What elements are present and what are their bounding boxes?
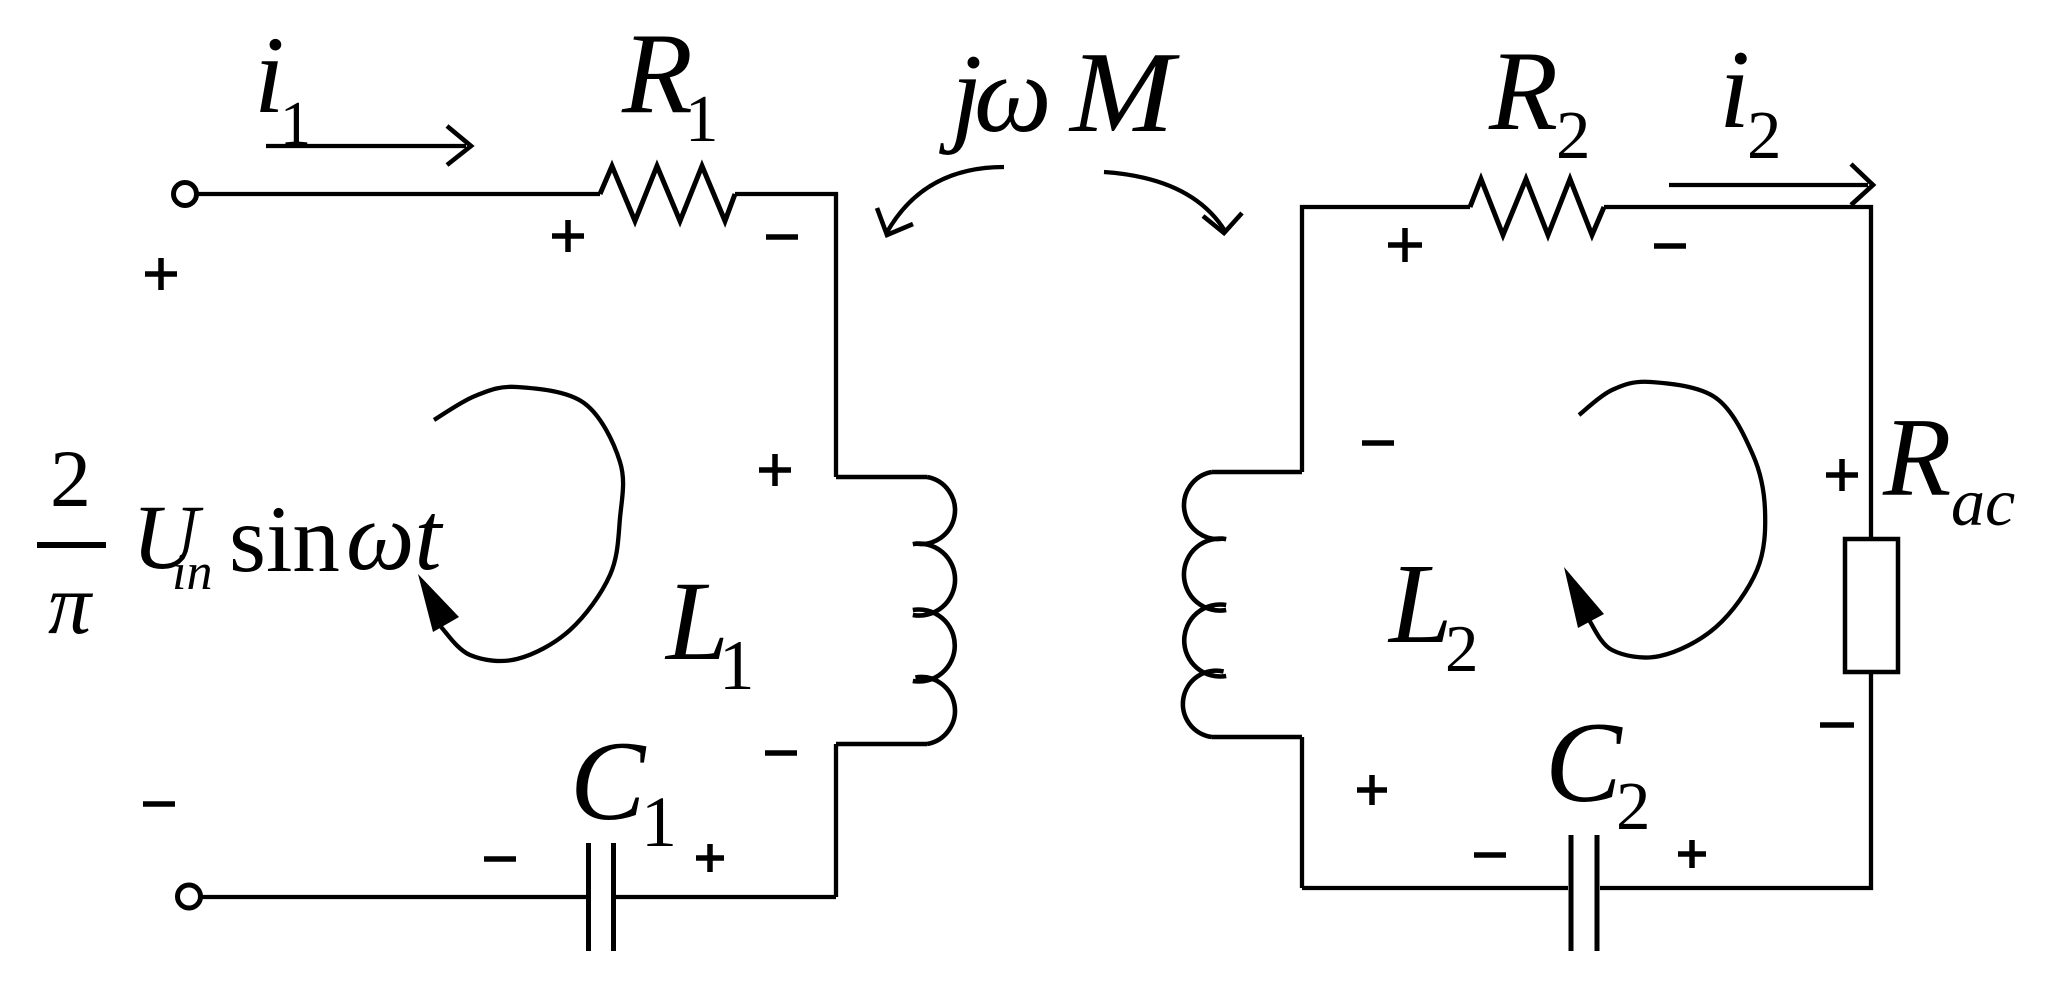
svg-text:ωt: ωt bbox=[346, 483, 443, 590]
svg-text:sin: sin bbox=[229, 486, 340, 592]
polarity - (Rac bottom) bbox=[1820, 722, 1854, 728]
capacitor C1 bbox=[589, 843, 614, 951]
label R1 bbox=[621, 10, 719, 156]
current arrow i1 bbox=[266, 126, 471, 165]
coupling arrow left bbox=[877, 167, 1004, 235]
svg-text:1: 1 bbox=[719, 627, 755, 705]
svg-text:2: 2 bbox=[1556, 97, 1591, 173]
terminal T1 (top input) bbox=[174, 183, 197, 206]
svg-text:1: 1 bbox=[280, 90, 311, 158]
svg-text:C: C bbox=[1545, 699, 1623, 826]
svg-text:2: 2 bbox=[1445, 612, 1479, 686]
svg-text:2: 2 bbox=[1747, 97, 1782, 173]
wire R2 to top-right corner bbox=[1604, 207, 1871, 539]
polarity + (source top) bbox=[145, 258, 177, 290]
label L2 bbox=[1387, 540, 1479, 686]
svg-text:ω: ω bbox=[974, 33, 1052, 155]
label C1 bbox=[570, 719, 677, 862]
wire L1 bottom vertical bbox=[834, 744, 838, 897]
terminal T2 (bottom input) bbox=[178, 885, 201, 908]
coupling arrow right bbox=[1104, 172, 1242, 233]
svg-text:2: 2 bbox=[1616, 768, 1651, 844]
svg-text:L: L bbox=[1387, 540, 1452, 667]
wire R1 to L1 top (corner) bbox=[735, 194, 836, 477]
polarity - (L2 top) bbox=[1362, 440, 1394, 446]
polarity - (C2 left) bbox=[1474, 852, 1506, 858]
inductor L1 bbox=[836, 477, 955, 744]
loop arrow left (clockwise) bbox=[418, 387, 623, 661]
polarity - (L1 bottom) bbox=[765, 750, 797, 756]
wire top-left bbox=[197, 192, 600, 196]
loop arrow right (clockwise) bbox=[1564, 382, 1765, 658]
wire bottom-left bbox=[202, 895, 836, 899]
wire L2 top vertical + top wire right bbox=[1302, 207, 1470, 472]
polarity - (R2 right) bbox=[1654, 243, 1686, 249]
label R2 bbox=[1488, 29, 1591, 173]
polarity + (R1 left) bbox=[552, 220, 584, 252]
polarity + (Rac top) bbox=[1826, 459, 1858, 491]
wire bottom-right bbox=[1302, 672, 1871, 888]
svg-text:C: C bbox=[570, 719, 647, 844]
load resistor Rac bbox=[1845, 539, 1898, 672]
svg-text:i: i bbox=[1719, 28, 1750, 152]
svg-text:M: M bbox=[1068, 29, 1180, 157]
svg-text:R: R bbox=[621, 10, 693, 138]
resistor R2 bbox=[1470, 179, 1604, 235]
svg-text:π: π bbox=[48, 556, 94, 652]
resistor R1 bbox=[600, 166, 735, 221]
current arrow i2 bbox=[1669, 164, 1873, 205]
polarity - (C1 left) bbox=[484, 856, 516, 862]
inductor L2 bbox=[1183, 472, 1302, 737]
label i2 bbox=[1719, 28, 1782, 173]
label C2 bbox=[1545, 699, 1651, 844]
svg-text:in: in bbox=[172, 544, 212, 601]
svg-text:R: R bbox=[1488, 29, 1558, 154]
label i1 bbox=[254, 14, 311, 158]
polarity + (L1 top) bbox=[759, 454, 791, 486]
svg-text:R: R bbox=[1882, 396, 1951, 520]
polarity + (C1 right) bbox=[696, 844, 724, 872]
label jwM bbox=[939, 29, 1180, 157]
svg-text:2: 2 bbox=[50, 433, 91, 524]
polarity + (C2 right) bbox=[1678, 840, 1706, 868]
polarity - (source bottom) bbox=[143, 801, 175, 807]
source label (2/pi)Uin sin wt bbox=[37, 433, 443, 652]
svg-text:1: 1 bbox=[641, 782, 677, 862]
svg-text:1: 1 bbox=[685, 82, 719, 156]
label Rac bbox=[1882, 396, 2015, 540]
polarity + (R2 left) bbox=[1388, 228, 1422, 262]
polarity - (R1 right) bbox=[766, 234, 798, 240]
capacitor C2 bbox=[1571, 835, 1597, 951]
wire L2 bottom vertical bbox=[1300, 737, 1304, 888]
svg-text:ac: ac bbox=[1951, 464, 2015, 540]
label L1 bbox=[664, 559, 755, 705]
polarity + (L2 bottom) bbox=[1357, 775, 1387, 805]
